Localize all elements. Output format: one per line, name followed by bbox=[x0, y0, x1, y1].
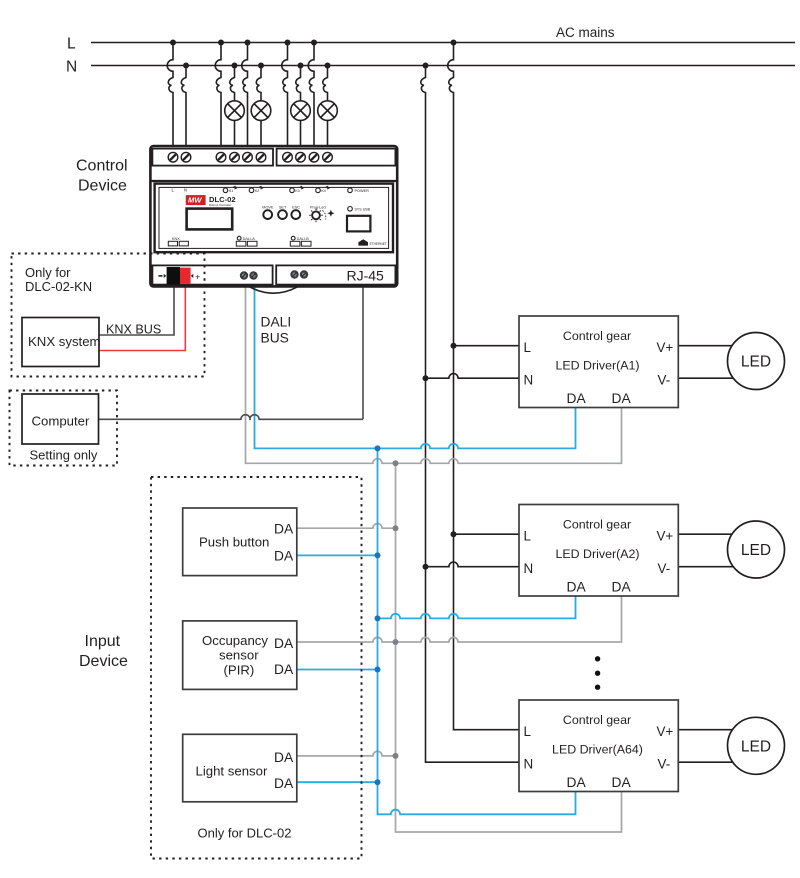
svg-text:KNX system: KNX system bbox=[28, 334, 101, 349]
svg-text:Control gear: Control gear bbox=[563, 518, 631, 532]
svg-text:POWER: POWER bbox=[355, 189, 370, 193]
svg-text:Input: Input bbox=[85, 633, 121, 650]
svg-text:DA: DA bbox=[274, 662, 294, 677]
svg-text:L: L bbox=[524, 529, 531, 544]
svg-text:SYS USB: SYS USB bbox=[355, 208, 371, 212]
svg-text:LED: LED bbox=[741, 354, 771, 371]
svg-text:N: N bbox=[66, 59, 77, 76]
svg-text:L: L bbox=[67, 36, 76, 53]
svg-text:DA: DA bbox=[612, 391, 632, 406]
svg-text:ESC: ESC bbox=[292, 205, 300, 209]
svg-text:SET: SET bbox=[279, 205, 287, 209]
svg-text:Control gear: Control gear bbox=[563, 713, 631, 727]
svg-text:K1: K1 bbox=[229, 189, 233, 193]
svg-text:V+: V+ bbox=[657, 529, 674, 544]
svg-text:N: N bbox=[524, 561, 534, 576]
svg-text:Device: Device bbox=[79, 653, 128, 670]
svg-text:Control gear: Control gear bbox=[563, 329, 631, 343]
svg-text:DA: DA bbox=[612, 580, 632, 595]
svg-text:+: + bbox=[195, 272, 200, 282]
svg-text:DA: DA bbox=[567, 775, 587, 790]
svg-text:LED: LED bbox=[741, 542, 771, 559]
svg-text:V+: V+ bbox=[657, 724, 674, 739]
svg-text:Control: Control bbox=[76, 158, 128, 175]
svg-text:N: N bbox=[524, 757, 534, 772]
svg-text:LED Driver(A1): LED Driver(A1) bbox=[556, 359, 640, 373]
svg-text:LED Driver(A64): LED Driver(A64) bbox=[552, 743, 643, 757]
svg-text:sensor: sensor bbox=[219, 648, 259, 663]
svg-text:RJ-45: RJ-45 bbox=[347, 268, 385, 284]
svg-text:N: N bbox=[184, 188, 187, 193]
svg-text:KNX BUS: KNX BUS bbox=[106, 323, 161, 337]
svg-text:L: L bbox=[524, 724, 531, 739]
svg-text:DLC-02-KN: DLC-02-KN bbox=[25, 279, 92, 294]
svg-text:DA: DA bbox=[274, 636, 294, 651]
svg-text:Prog-Led: Prog-Led bbox=[310, 205, 326, 209]
svg-text:Computer: Computer bbox=[32, 414, 91, 429]
svg-text:K4: K4 bbox=[321, 189, 325, 193]
svg-text:K2: K2 bbox=[255, 189, 259, 193]
svg-text:DA: DA bbox=[274, 750, 294, 765]
svg-text:DALI: DALI bbox=[261, 315, 292, 330]
svg-text:DALI-B: DALI-B bbox=[297, 237, 310, 241]
svg-text:V-: V- bbox=[658, 561, 671, 576]
svg-text:V+: V+ bbox=[657, 340, 674, 355]
svg-text:Setting only: Setting only bbox=[30, 448, 98, 463]
svg-text:L: L bbox=[524, 340, 531, 355]
svg-text:AC mains: AC mains bbox=[556, 25, 615, 40]
svg-text:MOVE: MOVE bbox=[262, 205, 274, 209]
svg-text:Only for DLC-02: Only for DLC-02 bbox=[198, 826, 292, 841]
svg-text:Light sensor: Light sensor bbox=[196, 764, 268, 779]
svg-text:Device: Device bbox=[78, 178, 127, 195]
svg-text:LED Driver(A2): LED Driver(A2) bbox=[556, 547, 640, 561]
svg-text:DA: DA bbox=[274, 776, 294, 791]
svg-text:DA: DA bbox=[274, 522, 294, 537]
svg-text:ETHERNET: ETHERNET bbox=[370, 242, 387, 246]
svg-text:Only for: Only for bbox=[25, 265, 71, 280]
svg-text:DA: DA bbox=[567, 391, 587, 406]
svg-text:N: N bbox=[524, 373, 534, 388]
svg-text:DALI-2 Controller: DALI-2 Controller bbox=[209, 203, 231, 207]
svg-text:DALI-A: DALI-A bbox=[243, 237, 256, 241]
svg-text:DA: DA bbox=[567, 580, 587, 595]
svg-text:DA: DA bbox=[274, 549, 294, 564]
svg-text:Push button: Push button bbox=[199, 535, 269, 550]
svg-text:(PIR): (PIR) bbox=[224, 663, 255, 678]
svg-text:LED: LED bbox=[741, 738, 771, 755]
svg-text:BUS: BUS bbox=[261, 331, 289, 346]
svg-text:Occupancy: Occupancy bbox=[202, 633, 268, 648]
svg-text:V-: V- bbox=[658, 757, 671, 772]
svg-text:KNX: KNX bbox=[172, 237, 180, 241]
svg-text:DA: DA bbox=[612, 775, 632, 790]
svg-text:K3: K3 bbox=[295, 189, 299, 193]
svg-text:V-: V- bbox=[658, 373, 671, 388]
